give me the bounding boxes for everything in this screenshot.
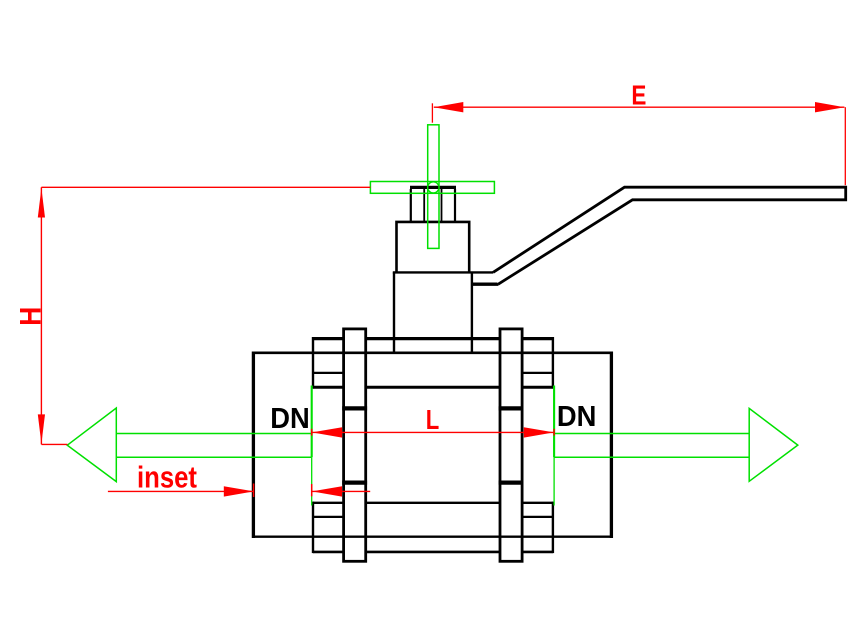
dimension H bottom arrowhead bbox=[38, 414, 45, 444]
left end cap bbox=[252, 352, 313, 539]
bolt nut bands bbox=[342, 408, 523, 482]
dimension E right extension line bbox=[844, 107, 846, 185]
bolt right bbox=[500, 329, 522, 561]
dimension E line bbox=[434, 106, 845, 108]
svg-text:L: L bbox=[426, 404, 440, 435]
dimension L right arrowhead bbox=[524, 427, 554, 437]
bonnet lower bbox=[393, 272, 493, 354]
body side vertical edges bbox=[313, 337, 553, 553]
stem posts bbox=[411, 189, 455, 222]
stem circle (behind stem) bbox=[428, 182, 439, 193]
dimension E left extension line bbox=[431, 103, 433, 122]
dimension inset right line bbox=[312, 490, 370, 492]
handle attachment bar bbox=[472, 283, 498, 286]
svg-text:inset: inset bbox=[137, 460, 197, 495]
dimension L left arrowhead bbox=[312, 427, 342, 437]
left flow arrow head bbox=[67, 408, 116, 482]
flange ear lines bbox=[313, 373, 553, 517]
right flow arrow shaft bbox=[554, 434, 749, 458]
bore end line left bbox=[311, 386, 313, 506]
dimension H top arrowhead bbox=[38, 188, 45, 218]
dimension E right arrowhead bbox=[815, 102, 845, 112]
body joint lines crossing bolts bbox=[313, 353, 553, 537]
stem top bar bbox=[410, 186, 456, 189]
stem centerline horizontal box bbox=[370, 182, 494, 194]
dimension inset right-pointing arrowhead bbox=[224, 486, 254, 496]
dimension inset right tick bbox=[311, 484, 313, 496]
svg-text:DN: DN bbox=[557, 401, 597, 433]
dimension L right tick bbox=[553, 429, 555, 436]
dimension H bottom line bbox=[41, 443, 67, 445]
body flange plates (horizontal lines masked by bolts drawn later) bbox=[313, 339, 553, 552]
svg-text:H: H bbox=[14, 307, 47, 326]
bonnet upper bbox=[397, 222, 470, 273]
dimension E left arrowhead bbox=[434, 102, 464, 112]
dimension inset left line bbox=[108, 490, 254, 492]
right flow arrow head bbox=[749, 408, 798, 481]
dimension L left tick bbox=[311, 429, 313, 436]
dimension inset left tick bbox=[253, 484, 255, 498]
dimension inset left-pointing arrowhead bbox=[312, 486, 342, 496]
dimension L line bbox=[312, 431, 554, 433]
bore end line right bbox=[553, 386, 555, 506]
right end cap bbox=[553, 352, 613, 539]
svg-text:DN: DN bbox=[270, 403, 310, 435]
bolt left bbox=[344, 329, 366, 561]
left flow arrow shaft bbox=[116, 434, 311, 458]
handle lever bbox=[493, 187, 846, 284]
dimension H vertical line bbox=[40, 187, 42, 444]
stem centerline vertical box bbox=[428, 125, 439, 249]
dimension H top line bbox=[41, 186, 370, 188]
svg-text:E: E bbox=[631, 79, 646, 110]
